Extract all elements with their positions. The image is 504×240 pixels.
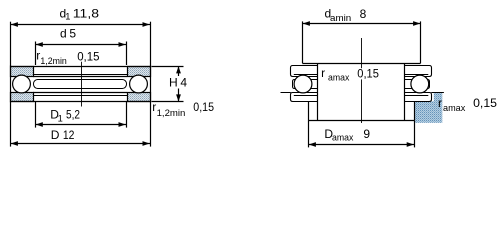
- svg-text:0,15: 0,15: [357, 66, 379, 80]
- svg-text:1: 1: [65, 12, 70, 22]
- svg-text:8: 8: [360, 7, 367, 21]
- svg-text:5: 5: [69, 27, 76, 41]
- svg-text:1,2min: 1,2min: [157, 108, 186, 118]
- svg-text:D: D: [51, 128, 60, 142]
- svg-text:amax: amax: [443, 103, 466, 113]
- svg-text:amin: amin: [330, 13, 351, 23]
- svg-text:amax: amax: [332, 133, 354, 143]
- svg-text:11,8: 11,8: [73, 6, 100, 20]
- svg-text:0,15: 0,15: [193, 100, 214, 114]
- svg-text:9: 9: [363, 127, 370, 141]
- svg-text:amax: amax: [328, 73, 350, 83]
- svg-text:r: r: [438, 96, 442, 110]
- svg-text:d: d: [60, 27, 67, 41]
- svg-text:5,2: 5,2: [66, 107, 80, 121]
- svg-text:r: r: [152, 100, 156, 114]
- svg-text:1: 1: [58, 113, 63, 123]
- svg-text:12: 12: [63, 128, 75, 142]
- svg-text:0,15: 0,15: [77, 50, 100, 64]
- svg-text:0,15: 0,15: [473, 96, 497, 110]
- svg-text:1,2min: 1,2min: [40, 56, 66, 66]
- svg-text:r: r: [321, 66, 325, 80]
- svg-text:4: 4: [180, 76, 187, 90]
- svg-text:H: H: [169, 76, 178, 90]
